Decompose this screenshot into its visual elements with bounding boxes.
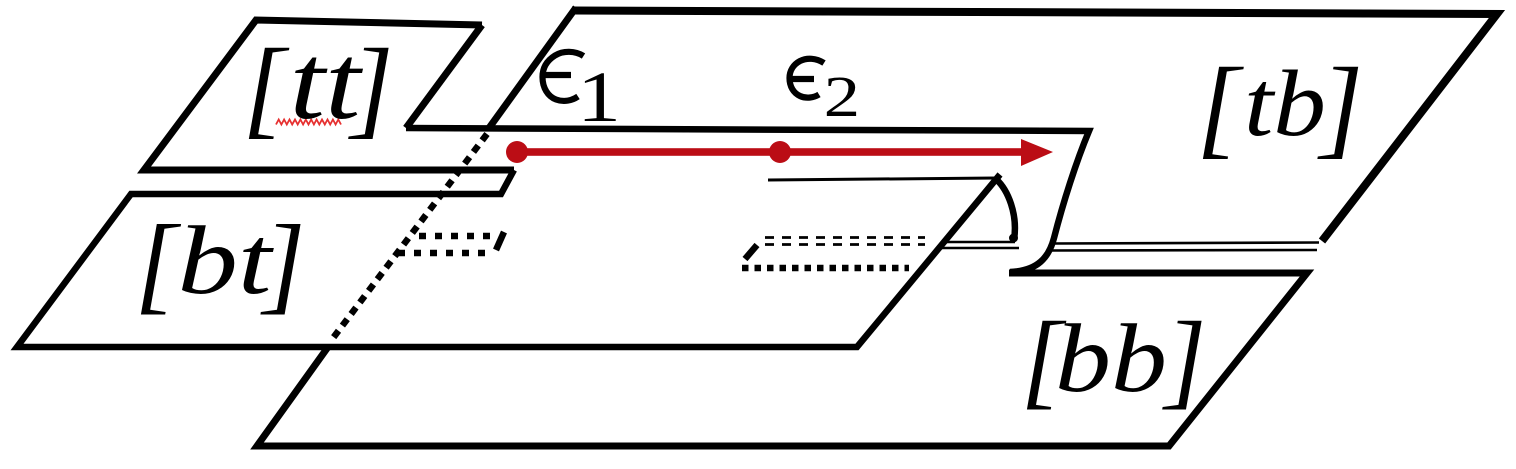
svg-text:bt: bt xyxy=(178,207,275,314)
svg-text:1: 1 xyxy=(577,57,621,137)
svg-text:tb: tb xyxy=(1244,52,1326,156)
svg-text:bb: bb xyxy=(1055,305,1167,413)
svg-text:tt: tt xyxy=(290,24,364,142)
svg-text:2: 2 xyxy=(824,64,861,129)
svg-text:]: ] xyxy=(1162,301,1207,419)
svg-text:[: [ xyxy=(243,26,290,148)
svg-text:[: [ xyxy=(1197,46,1245,169)
svg-text:[: [ xyxy=(135,203,182,324)
